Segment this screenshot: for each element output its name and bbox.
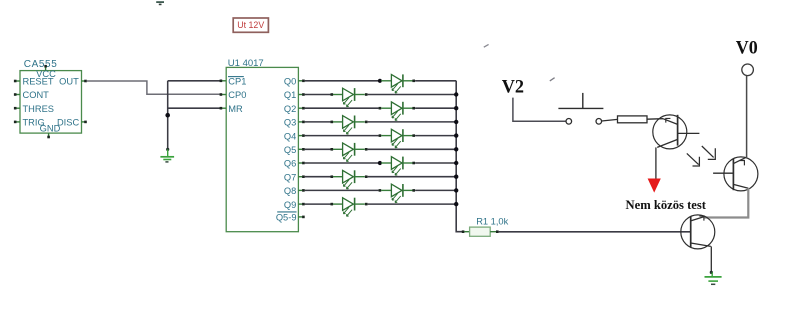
LED6 on Q5	[305, 143, 457, 162]
wire LED bus	[456, 81, 462, 232]
svg-text:U1 4017: U1 4017	[228, 58, 264, 69]
svg-text:Q5: Q5	[284, 145, 296, 155]
resistor R1 1,0k	[462, 216, 509, 236]
pin Q1 (4017)	[284, 90, 305, 100]
junction	[454, 120, 458, 124]
wire resistor to Q1 emitter	[647, 118, 663, 121]
svg-text:DISC: DISC	[57, 118, 79, 128]
pin CONT (555)	[14, 93, 20, 96]
junction	[454, 202, 458, 206]
svg-text:V0: V0	[736, 37, 758, 58]
svg-text:CONT: CONT	[23, 90, 50, 100]
svg-text:Q3: Q3	[284, 118, 296, 128]
junction	[454, 147, 458, 151]
svg-text:Q8: Q8	[284, 186, 296, 196]
pin DISC (555)	[82, 121, 87, 124]
pin Q5 (4017)	[284, 145, 305, 155]
svg-text:Q2: Q2	[284, 104, 296, 114]
chassis marker (red arrow)	[648, 179, 661, 193]
svg-text:OUT: OUT	[59, 77, 79, 87]
svg-text:Nem közös test: Nem közös test	[626, 197, 707, 212]
pin TRIG (555)	[14, 121, 20, 124]
pin OUT (555)	[82, 80, 87, 83]
wire CP1 net	[168, 80, 221, 82]
svg-text:Q6: Q6	[284, 159, 296, 169]
svg-text:Q0: Q0	[284, 77, 296, 87]
pin THRES (555)	[14, 107, 20, 110]
pin Q0 (4017)	[284, 77, 305, 87]
junction	[454, 92, 458, 96]
pin Q8 (4017)	[284, 186, 305, 196]
pin MR (4017)	[220, 107, 227, 110]
LED2 on Q1	[305, 88, 457, 107]
LED7 on Q6	[305, 157, 457, 176]
wire V0 to Q2 emitter	[746, 76, 748, 157]
svg-text:R1 1,0k: R1 1,0k	[476, 216, 508, 226]
pin Q2 (4017)	[284, 104, 305, 114]
ground (MR net)	[160, 148, 174, 162]
wire R1 to transistor base	[499, 231, 691, 233]
phototransistor Q2	[713, 157, 758, 191]
resistor (sketch box)	[618, 116, 648, 123]
pin Q3 (4017)	[284, 118, 305, 128]
pin VCC (555)	[44, 65, 47, 71]
LED5 on Q4	[305, 129, 457, 148]
svg-text:GND: GND	[40, 124, 61, 134]
pin GND (555)	[47, 133, 50, 138]
svg-text:Ut 12V: Ut 12V	[237, 20, 264, 30]
svg-text:THRES: THRES	[23, 104, 55, 114]
pin Q7 (4017)	[284, 172, 305, 182]
junction	[454, 175, 458, 179]
transistor Q3	[681, 215, 715, 272]
light coupling arrows	[687, 146, 716, 166]
wire OUT to CP0	[87, 81, 221, 94]
stray mark	[550, 78, 555, 81]
svg-text:Q9: Q9	[284, 200, 296, 210]
pin Q6 (4017)	[284, 159, 305, 169]
LED9 on Q8	[305, 184, 457, 203]
svg-text:CP0: CP0	[228, 90, 246, 100]
switch S1 (push button)	[558, 93, 603, 124]
wire V2 to switch	[513, 98, 566, 122]
LED3 on Q2	[305, 102, 457, 121]
transistor Q1	[653, 115, 700, 179]
junction	[454, 133, 458, 137]
svg-text:MR: MR	[228, 104, 243, 114]
svg-text:RESET: RESET	[23, 77, 54, 87]
pin CP0 (4017)	[220, 93, 227, 96]
svg-text:Q5-9: Q5-9	[276, 212, 297, 222]
label Ut 12V	[233, 18, 268, 32]
pin Q9 (4017)	[284, 200, 305, 210]
wire CP1 to ground	[167, 81, 169, 149]
svg-text:Q1: Q1	[284, 90, 296, 100]
svg-text:Q7: Q7	[284, 172, 296, 182]
LED1 on Q0	[305, 74, 457, 93]
wire Q2 collector to Q3 (gray)	[704, 188, 748, 217]
pin Q4 (4017)	[284, 131, 305, 141]
LED4 on Q3	[305, 116, 457, 135]
pin RESET (555)	[14, 80, 20, 83]
junction	[454, 106, 458, 110]
pin CP1 (4017)	[220, 80, 227, 83]
svg-text:V2: V2	[502, 76, 524, 97]
LED8 on Q7	[305, 170, 457, 189]
IC CA555 timer	[20, 59, 82, 134]
junction	[165, 113, 170, 118]
wire switch to resistor	[602, 119, 618, 121]
junction	[454, 161, 458, 165]
svg-text:CP1: CP1	[228, 76, 246, 86]
terminal V0	[742, 64, 754, 76]
ground (Q3)	[705, 271, 722, 285]
junction	[454, 188, 458, 192]
LED10 on Q9	[305, 198, 457, 217]
pin Q5-9 (4017)	[276, 212, 305, 223]
IC U1 4017 counter	[226, 58, 298, 232]
svg-text:Q4: Q4	[284, 131, 296, 141]
stray mark	[484, 44, 489, 47]
wire MR	[168, 107, 221, 109]
ground (cropped, top edge)	[156, 2, 164, 4]
